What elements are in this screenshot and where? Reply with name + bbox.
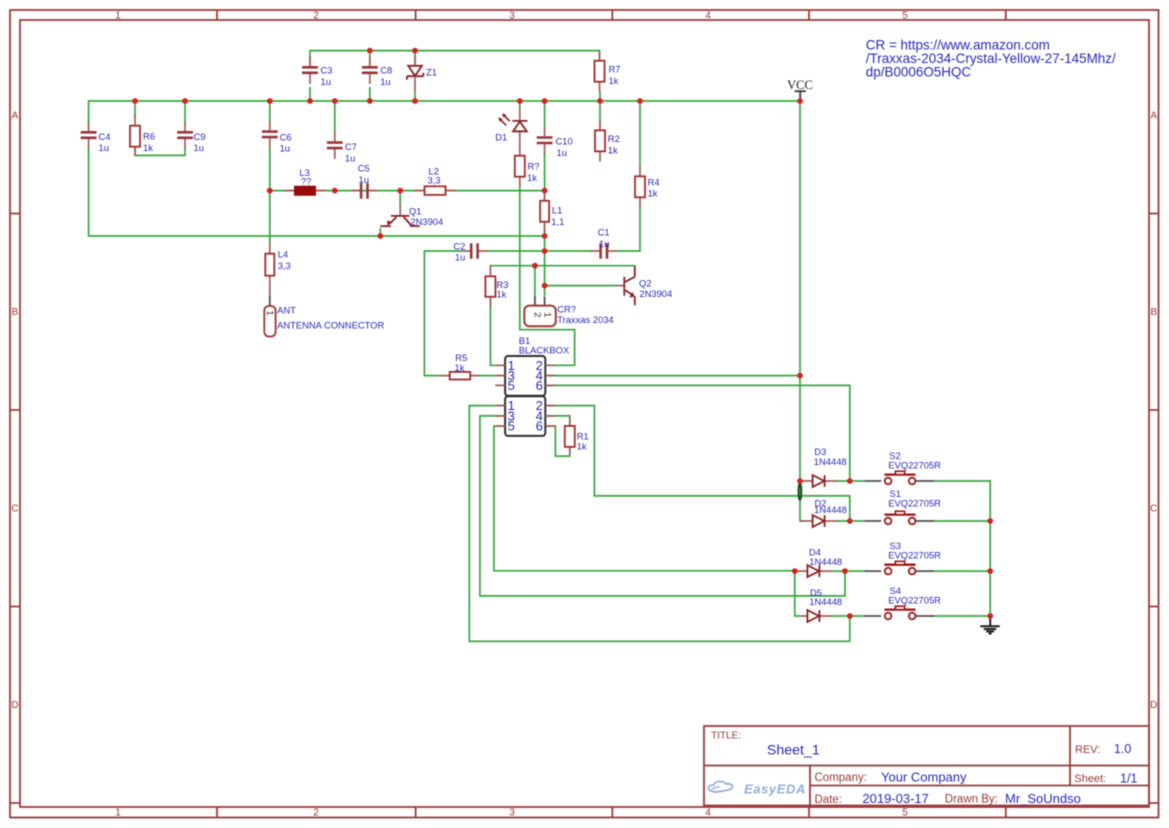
junction D5-cathode-S4: [847, 613, 853, 619]
junction D2-cathode-S1: [847, 518, 853, 524]
wire C2/C1 row y251: [424, 205, 640, 376]
wire D5 to S4: [831, 615, 866, 617]
svg-text:3: 3: [509, 807, 515, 818]
wire VCC column to D3/D2: [800, 376, 802, 521]
wire VCC rail: [89, 87, 800, 376]
wire L-row y190.6: [270, 147, 545, 296]
svg-text:L4: L4: [278, 249, 288, 260]
wire B1 lower pin2 to D2: [546, 406, 850, 521]
svg-text:1u: 1u: [455, 252, 465, 263]
junction topwire-C8: [367, 48, 373, 54]
transistor Q2: [616, 266, 672, 305]
svg-text:C: C: [11, 503, 18, 514]
capacitor C2: [453, 240, 487, 262]
svg-text:C2: C2: [453, 240, 465, 251]
junction rail-C9: [182, 98, 188, 104]
capacitor C8: [362, 57, 392, 87]
svg-text:1: 1: [264, 310, 275, 315]
svg-text:1k: 1k: [608, 144, 618, 155]
junction S4-out-GND: [987, 613, 993, 619]
svg-text:VCC: VCC: [787, 78, 813, 92]
resistor R7: [595, 51, 621, 92]
svg-text:R?: R?: [528, 161, 540, 172]
svg-text:1/1: 1/1: [1120, 771, 1137, 785]
svg-text:Mr_SoUndso: Mr_SoUndso: [1005, 791, 1081, 806]
svg-text:1k: 1k: [455, 362, 465, 373]
junction C6-L3: [267, 188, 273, 194]
svg-text:1k: 1k: [648, 188, 658, 199]
svg-text:5: 5: [508, 378, 515, 393]
svg-text:TITLE:: TITLE:: [711, 731, 741, 742]
svg-text:5: 5: [508, 419, 515, 434]
svg-text:5: 5: [902, 11, 908, 22]
svg-text:4: 4: [705, 11, 711, 22]
svg-text:C7: C7: [345, 141, 357, 152]
svg-text:6: 6: [536, 419, 543, 434]
capacitor C10: [537, 127, 573, 158]
svg-text:2: 2: [532, 312, 543, 317]
svg-text:R7: R7: [609, 64, 621, 75]
VCC power symbol: [787, 78, 813, 101]
svg-text:2: 2: [313, 807, 319, 818]
svg-text:Date:: Date:: [815, 794, 843, 806]
svg-text:C6: C6: [280, 131, 292, 142]
svg-text:5: 5: [902, 807, 908, 818]
svg-text:ANT: ANT: [277, 304, 296, 315]
resistor R6: [130, 115, 155, 155]
svg-text:BLACKBOX: BLACKBOX: [519, 345, 570, 356]
junction D3-cathode-S2: [847, 478, 853, 484]
svg-text:1k: 1k: [609, 75, 619, 86]
junction S1-out: [987, 518, 993, 524]
junction rail-R6: [132, 98, 138, 104]
junction D4-anode: [792, 568, 798, 574]
wire B1 pin4 to VCC column: [546, 375, 800, 377]
resistor R1: [565, 417, 589, 457]
svg-text:R2: R2: [608, 133, 620, 144]
svg-text:1k: 1k: [577, 441, 587, 452]
svg-text:4: 4: [705, 807, 711, 818]
svg-text:Company:: Company:: [815, 772, 867, 784]
switch S3: [865, 540, 941, 574]
junction C2-C1: [542, 248, 548, 254]
svg-text:1k: 1k: [527, 172, 537, 183]
svg-text:R4: R4: [648, 176, 660, 187]
junction rail-C3: [307, 98, 313, 104]
resistor R4: [635, 167, 660, 208]
svg-text:A: A: [12, 110, 19, 121]
diode D5: [800, 587, 842, 622]
capacitor C4: [81, 122, 111, 153]
svg-text:L1: L1: [552, 205, 562, 216]
resistor R3: [485, 266, 508, 307]
junction L1-bottom: [542, 233, 548, 239]
ground: [980, 616, 1000, 634]
capacitor C3: [302, 57, 332, 87]
junction D3-anode: [797, 478, 803, 484]
ANT antenna connector: [264, 286, 384, 337]
wire R? to B1 pin2: [520, 184, 575, 365]
junction Q2b-CR1: [542, 283, 548, 289]
inductor L1: [540, 191, 564, 232]
svg-text:EVQ22705R: EVQ22705R: [888, 497, 941, 508]
junction rail-R7-R2: [597, 98, 603, 104]
junction rail-C10: [542, 98, 548, 104]
junction rail-C6: [267, 98, 273, 104]
resistor R?: [515, 156, 540, 187]
svg-text:2N3904: 2N3904: [639, 288, 672, 299]
svg-text:2N3904: 2N3904: [410, 216, 443, 227]
svg-text:C4: C4: [99, 131, 111, 142]
wire D4 anode to D5 anode: [795, 571, 800, 616]
svg-text:1N4448: 1N4448: [809, 556, 842, 567]
black box B1: [495, 335, 570, 436]
svg-text:1.0: 1.0: [1114, 742, 1131, 756]
junction D4-cathode-S3: [842, 568, 848, 574]
transistor Q1: [380, 204, 443, 227]
svg-text:Z1: Z1: [426, 67, 437, 78]
capacitor C7: [327, 132, 357, 163]
inductor L2: [415, 166, 456, 195]
svg-text:ANTENNA CONNECTOR: ANTENNA CONNECTOR: [277, 320, 384, 331]
diode D3: [800, 446, 847, 487]
svg-text:1N4448: 1N4448: [814, 504, 847, 515]
svg-text:C8: C8: [380, 65, 392, 76]
switch S1: [865, 488, 941, 524]
wire B1 lower pin3 to D4 cathode: [480, 416, 845, 596]
wire B1 pin6 to D3: [546, 385, 850, 481]
svg-text:1u: 1u: [321, 76, 331, 87]
resistor R5: [440, 352, 480, 379]
svg-text:B: B: [1150, 307, 1157, 318]
svg-text:R6: R6: [143, 131, 155, 142]
svg-text:Sheet:: Sheet:: [1074, 773, 1106, 785]
LED D1: [495, 109, 527, 156]
wire B1 lower pin1 to D5 cathode: [469, 406, 850, 642]
svg-text:1u: 1u: [599, 238, 609, 249]
svg-text:6: 6: [536, 378, 543, 393]
svg-text:1u: 1u: [280, 143, 290, 154]
junction C5-L2-Q1: [397, 188, 403, 194]
svg-text:Traxxas 2034: Traxxas 2034: [557, 314, 613, 325]
wire S outputs to ground column: [933, 481, 990, 616]
svg-text:EVQ22705R: EVQ22705R: [888, 460, 941, 471]
svg-text:Q1: Q1: [409, 205, 422, 216]
junction L2-C10-L1: [542, 188, 548, 194]
junction topwire-Z1: [412, 48, 418, 54]
wire R6/C9 link: [135, 145, 185, 155]
svg-text:D1: D1: [495, 132, 507, 143]
svg-text:D: D: [1150, 700, 1157, 711]
resistor R2: [595, 121, 620, 162]
svg-text:dp/B0006O5HQC: dp/B0006O5HQC: [866, 65, 972, 80]
svg-text:1k: 1k: [497, 288, 507, 299]
svg-text:Your Company: Your Company: [881, 770, 967, 785]
svg-text:3,3: 3,3: [428, 175, 441, 186]
svg-text:1N4448: 1N4448: [814, 456, 847, 467]
wire top net C3/C8/Z1/R7: [310, 51, 600, 64]
wire Q2 base: [545, 285, 616, 287]
wire hop at (800,491): [799, 483, 802, 499]
svg-text:1u: 1u: [194, 142, 204, 153]
switch S2: [865, 450, 941, 484]
svg-text:2: 2: [313, 11, 319, 22]
svg-text:EVQ22705R: EVQ22705R: [888, 595, 941, 606]
junction rail-Z1: [412, 98, 418, 104]
svg-text:??: ??: [301, 176, 311, 187]
svg-text:1u: 1u: [359, 174, 369, 185]
svg-text:A: A: [1150, 110, 1157, 121]
svg-text:1: 1: [115, 807, 121, 818]
wire B1 lower pin5 to D4 anode: [494, 426, 795, 571]
capacitor C9: [177, 122, 205, 153]
svg-text:CR?: CR?: [557, 304, 576, 315]
wire left column C4 down: [89, 147, 545, 236]
junction rail-C7: [332, 98, 338, 104]
svg-text:3,3: 3,3: [278, 260, 291, 271]
title block: [704, 726, 1149, 806]
svg-text:Q2: Q2: [639, 278, 652, 289]
svg-text:3: 3: [509, 11, 515, 22]
svg-text:C9: C9: [194, 131, 206, 142]
svg-text:B: B: [12, 307, 19, 318]
svg-text:2019-03-17: 2019-03-17: [862, 791, 929, 806]
svg-text:C3: C3: [321, 65, 333, 76]
diode D4: [795, 547, 842, 578]
wire D4 to S3: [831, 570, 866, 572]
wire D3 to S2: [836, 480, 866, 482]
svg-text:C1: C1: [598, 227, 610, 238]
capacitor C5: [351, 163, 377, 199]
svg-text:C5: C5: [358, 163, 370, 174]
junction rail-C8: [367, 98, 373, 104]
svg-text:EVQ22705R: EVQ22705R: [888, 550, 941, 561]
junction VCC-pin4: [797, 373, 803, 379]
wire B1 lower pin4/pin6 R1 loop: [546, 416, 570, 456]
svg-text:C10: C10: [556, 136, 573, 147]
svg-text:C: C: [1150, 503, 1157, 514]
zener diode Z1: [407, 56, 437, 93]
svg-text:1u: 1u: [345, 152, 355, 163]
wire D2 to S1: [836, 520, 866, 522]
svg-text:1: 1: [115, 11, 121, 22]
junction rail-VCC: [797, 98, 803, 104]
wire R3 to B1 pin1: [490, 294, 504, 365]
switch S4: [865, 585, 941, 619]
svg-text:EasyEDA: EasyEDA: [744, 782, 806, 797]
svg-text:1u: 1u: [557, 147, 567, 158]
svg-text:1: 1: [541, 312, 552, 317]
capacitor C6: [262, 121, 292, 154]
svg-text:REV:: REV:: [1075, 744, 1100, 756]
EasyEDA logo: [708, 782, 806, 797]
junction rail-R4: [637, 98, 643, 104]
inductor L3: [284, 167, 326, 196]
junction C7-L3-C5: [332, 188, 338, 194]
svg-text:D: D: [11, 700, 18, 711]
svg-text:1N4448: 1N4448: [809, 596, 842, 607]
svg-text:1,1: 1,1: [551, 216, 564, 227]
junction Q1-emitter: [377, 233, 383, 239]
junction rail-D1: [517, 98, 523, 104]
diode D2: [800, 498, 847, 527]
svg-text:1k: 1k: [143, 142, 153, 153]
note text: [866, 37, 1116, 79]
crystal CR? Traxxas 2034: [524, 297, 613, 327]
capacitor C1: [590, 227, 617, 259]
junction R3-Q2c-CR2: [532, 263, 538, 269]
wire R5 to B1 pin3: [478, 375, 504, 377]
junction S3-out: [987, 568, 993, 574]
svg-text:Drawn By:: Drawn By:: [945, 794, 998, 806]
inductor L4: [265, 244, 290, 286]
svg-text:Sheet_1: Sheet_1: [767, 743, 820, 759]
svg-text:1u: 1u: [380, 76, 390, 87]
svg-text:1u: 1u: [99, 142, 109, 153]
wire R3/Q2 collector net: [490, 266, 634, 297]
